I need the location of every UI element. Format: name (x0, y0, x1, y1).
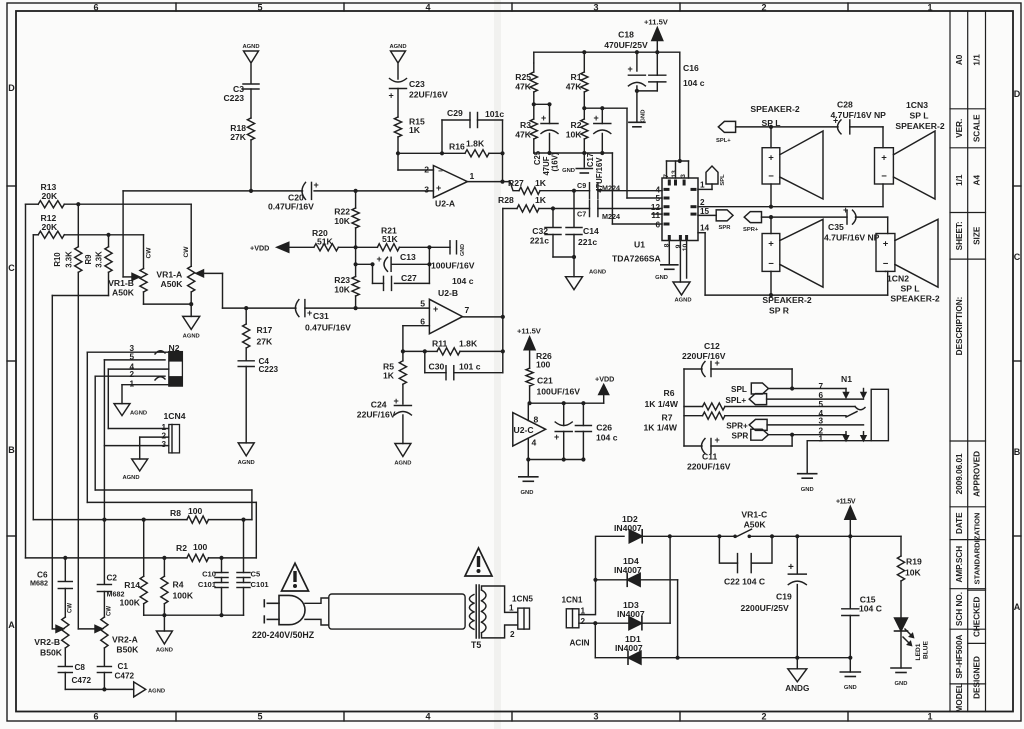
svg-text:1: 1 (470, 171, 475, 181)
wire VR2 bottom (65, 688, 133, 690)
diode 1D4 (627, 573, 640, 586)
svg-text:U1: U1 (634, 240, 645, 250)
wire U2C pin4 (527, 439, 529, 460)
svg-text:CHECKED: CHECKED (972, 596, 981, 637)
junction U1 bracket (678, 159, 682, 163)
svg-text:C31: C31 (313, 311, 329, 321)
resistor R2h (187, 554, 209, 561)
jack N1 contacts (845, 389, 847, 395)
svg-text:SPL+: SPL+ (725, 396, 746, 405)
capacitor C20 (311, 182, 313, 199)
junction C13 line (354, 262, 358, 266)
wire plus rail (670, 535, 735, 537)
svg-text:3: 3 (161, 440, 166, 449)
capacitor C13 (390, 257, 392, 271)
svg-text:100: 100 (188, 506, 203, 516)
svg-text:C21: C21 (537, 376, 553, 386)
svg-text:2009.06.01: 2009.06.01 (955, 453, 964, 494)
speaker 1CN2 (876, 234, 895, 272)
svg-text:ANDG: ANDG (785, 684, 809, 693)
potentiometer VR1-A wiper (201, 272, 223, 274)
pin 11 stub (652, 213, 662, 215)
diode 1D1 (628, 651, 641, 664)
svg-text:+: + (436, 183, 441, 193)
ground AGND R4 symbol (156, 631, 172, 644)
svg-text:+: + (541, 113, 546, 123)
potentiometer VR1-B (143, 235, 145, 269)
capacitor C8 (58, 666, 72, 668)
diode 1D3 (629, 617, 642, 630)
jack N1 (871, 389, 888, 440)
resistor R7 (684, 415, 703, 417)
svg-text:1K 1/4W: 1K 1/4W (644, 423, 678, 433)
svg-text:1: 1 (927, 3, 932, 13)
svg-text:20K: 20K (42, 191, 59, 201)
svg-text:1K: 1K (535, 195, 547, 205)
svg-text:AMP.SCH: AMP.SCH (955, 546, 964, 583)
potentiometer VR2-B (62, 617, 69, 648)
IC U1 TDA7266SA (662, 178, 698, 241)
svg-text:R27: R27 (508, 178, 524, 188)
wire R15 to opamp pin2 (397, 153, 399, 170)
flag SPL out (751, 383, 768, 394)
flag SPL plus (718, 121, 735, 132)
junction row1 (532, 102, 536, 106)
resistor R26 (526, 368, 533, 386)
svg-text:+: + (883, 239, 889, 250)
svg-text:1CN1: 1CN1 (562, 596, 583, 605)
junction R20 node (354, 245, 358, 249)
svg-text:SP-HF500A: SP-HF500A (955, 634, 964, 678)
capacitor C18 (636, 52, 638, 71)
wire VR1 bottoms (144, 303, 192, 305)
speaker SP R (762, 234, 780, 272)
svg-text:N1: N1 (841, 374, 852, 384)
svg-text:BLUE: BLUE (923, 640, 930, 659)
power +11.5V arrow 2 (524, 337, 535, 350)
svg-text:+: + (377, 254, 382, 264)
svg-text:11: 11 (651, 211, 660, 220)
capacitor C31 (304, 300, 306, 317)
resistor R23 (355, 264, 357, 276)
resistor R18 (247, 118, 254, 140)
svg-text:A4: A4 (972, 175, 981, 186)
ground AGND right VR2 (134, 682, 146, 697)
svg-text:GND: GND (562, 168, 575, 174)
junction SPL line (769, 125, 773, 129)
capacitor C25 (549, 104, 551, 123)
svg-text:4: 4 (425, 712, 430, 722)
svg-text:5: 5 (257, 712, 262, 722)
ground GND below C15 (849, 658, 851, 672)
wire R9 to VR2B wiper (52, 295, 108, 297)
junction row2 (547, 151, 551, 155)
capacitor C3 (243, 83, 259, 85)
ground AGND below 1CN4 (132, 459, 148, 471)
svg-text:C24: C24 (371, 400, 387, 410)
svg-text:+VDD: +VDD (595, 375, 614, 384)
svg-text:U2-A: U2-A (435, 199, 455, 209)
svg-text:C: C (1014, 252, 1021, 262)
svg-text:−: − (768, 171, 774, 182)
svg-text:+: + (768, 153, 774, 164)
junction R15 bottom (396, 151, 400, 155)
svg-text:AGND: AGND (148, 689, 165, 695)
svg-text:5: 5 (655, 194, 660, 203)
resistor R28 (503, 208, 517, 210)
svg-text:VR1-A: VR1-A (156, 270, 182, 280)
svg-text:C17: C17 (586, 153, 595, 167)
svg-text:A: A (1014, 602, 1021, 612)
svg-text:C10: C10 (202, 570, 216, 579)
svg-text:47K: 47K (515, 82, 532, 92)
wire R13 bus (25, 204, 27, 558)
svg-text:10K: 10K (905, 568, 922, 578)
svg-text:104 c: 104 c (452, 276, 474, 286)
wire R22 down (355, 247, 357, 264)
svg-text:C13: C13 (400, 252, 416, 262)
svg-text:SPR: SPR (719, 225, 732, 231)
svg-text:+11.5V: +11.5V (836, 499, 856, 506)
svg-text:C35: C35 (828, 222, 844, 232)
svg-text:R22: R22 (334, 207, 350, 217)
svg-text:TDA7266SA: TDA7266SA (612, 254, 661, 264)
power cable (329, 594, 465, 629)
svg-text:GND: GND (460, 244, 466, 256)
svg-text:4: 4 (425, 3, 430, 13)
resistor R21 (377, 244, 399, 251)
wire SPR minus (770, 271, 772, 295)
resistor R19 (900, 536, 902, 556)
wire R28 left (502, 209, 504, 317)
svg-text:1: 1 (927, 712, 932, 722)
junction R12 line (106, 233, 110, 237)
junction U2C bottom (526, 457, 530, 461)
svg-text:SP L: SP L (901, 284, 920, 294)
svg-text:C7: C7 (577, 210, 586, 219)
resistor R2 (583, 108, 585, 119)
capacitor C16 (656, 52, 658, 75)
wire SPR to spk (770, 217, 772, 233)
svg-text:−: − (768, 258, 774, 269)
svg-text:C30: C30 (429, 362, 445, 372)
ground GND below U2C (527, 460, 529, 477)
wire U1 pins 9 10 down (679, 241, 681, 283)
svg-text:IN4007: IN4007 (614, 523, 642, 533)
svg-text:C26: C26 (596, 423, 612, 433)
svg-text:C32: C32 (532, 226, 548, 236)
svg-text:D: D (8, 83, 15, 93)
op-amp U2-C (513, 413, 546, 446)
potentiometer VR2-A (101, 617, 108, 648)
svg-text:1CN2: 1CN2 (887, 274, 909, 284)
junction feedback out (500, 151, 504, 155)
capacitor C11 loop (684, 445, 702, 447)
capacitor C101a (221, 578, 223, 583)
junction VR1 bottom (189, 302, 193, 306)
ground GND below N1 (798, 473, 817, 475)
capacitor C12 (710, 362, 712, 377)
resistor R5 (402, 351, 404, 360)
svg-text:27K: 27K (230, 132, 247, 142)
wire feedback right (502, 120, 504, 182)
connector 1CN1 (566, 609, 579, 628)
svg-text:1K: 1K (383, 371, 395, 381)
junction C31 R23 (354, 306, 358, 310)
svg-text:SPEAKER-2: SPEAKER-2 (750, 104, 799, 114)
svg-text:U2-C: U2-C (514, 425, 534, 435)
svg-text:C1: C1 (118, 662, 129, 671)
resistor R6 (684, 406, 703, 408)
svg-text:C101: C101 (251, 580, 270, 589)
capacitor C17 (601, 108, 603, 123)
svg-text:C101: C101 (198, 580, 217, 589)
wire C12 loop (683, 369, 685, 446)
wire 1D4 (596, 579, 627, 581)
wire +11.5V to rail (656, 38, 658, 52)
svg-text:R7: R7 (662, 413, 673, 423)
potentiometer VR2-B wiper (52, 628, 57, 630)
svg-text:20K: 20K (42, 222, 59, 232)
diode 1D2 (629, 530, 642, 543)
svg-text:1.8K: 1.8K (466, 139, 485, 149)
svg-text:104 c: 104 c (596, 433, 618, 443)
svg-text:A50K: A50K (161, 279, 184, 289)
svg-text:M224: M224 (602, 184, 620, 193)
resistor R13 (26, 203, 39, 205)
wire N2 pin1 (122, 384, 169, 386)
svg-text:1K: 1K (535, 178, 547, 188)
svg-text:1CN4: 1CN4 (164, 411, 186, 421)
svg-text:+: + (433, 304, 438, 314)
wire bias row1 (534, 103, 550, 105)
svg-text:AGND: AGND (156, 648, 173, 654)
svg-text:1: 1 (818, 434, 823, 443)
svg-text:LED1: LED1 (915, 643, 922, 660)
ground AGND below N2 (114, 404, 130, 416)
svg-text:D: D (1014, 89, 1021, 99)
junction SPR line (769, 215, 773, 219)
svg-text:AGND: AGND (389, 44, 406, 50)
switch VR1-C (733, 535, 737, 539)
svg-text:C472: C472 (72, 676, 92, 685)
svg-text:GND: GND (521, 490, 534, 496)
svg-text:100K: 100K (173, 591, 194, 601)
wire R15 to feedback node (398, 152, 442, 154)
wire SPL minus (770, 184, 772, 207)
wire node B down (594, 623, 596, 658)
svg-text:−: − (438, 167, 443, 176)
resistor R4 (163, 558, 165, 576)
svg-text:SPL: SPL (720, 174, 726, 186)
svg-text:1: 1 (509, 604, 514, 613)
svg-text:SCH NO.: SCH NO. (955, 592, 964, 626)
junction feedback node (440, 151, 444, 155)
capacitor C14 (566, 227, 582, 229)
svg-text:1/1: 1/1 (972, 54, 981, 66)
wire 1CN4 pin3 (104, 445, 168, 447)
wire VR1B wiper riser (122, 191, 124, 277)
svg-text:AGND: AGND (238, 460, 255, 466)
svg-text:+: + (389, 91, 394, 101)
svg-text:C16: C16 (683, 63, 699, 73)
svg-text:2: 2 (510, 630, 515, 639)
wire C27 branch (372, 264, 374, 283)
svg-text:A50K: A50K (112, 288, 135, 298)
svg-text:1/1: 1/1 (955, 174, 964, 186)
ground GND below C18 (636, 91, 638, 122)
svg-text:C28: C28 (837, 100, 853, 110)
capacitor C19 (796, 536, 798, 573)
svg-text:AGND: AGND (242, 44, 259, 50)
junction bottom rail (676, 656, 680, 660)
flag SPL (698, 188, 712, 190)
svg-text:6: 6 (655, 220, 660, 229)
svg-text:SCALE: SCALE (972, 114, 981, 142)
svg-text:3: 3 (424, 185, 429, 195)
svg-text:IN4007: IN4007 (615, 643, 643, 653)
wire U2C pin8 (527, 403, 529, 420)
junction R18 bottom (249, 189, 253, 193)
svg-text:R4: R4 (173, 580, 184, 590)
svg-text:IN4007: IN4007 (617, 609, 645, 619)
svg-text:2: 2 (424, 165, 429, 175)
svg-text:B: B (1014, 447, 1021, 457)
svg-text:C19: C19 (776, 592, 792, 602)
svg-text:51K: 51K (317, 237, 334, 247)
svg-text:6: 6 (93, 3, 98, 13)
speaker 1CN3 (875, 148, 894, 184)
capacitor C35 (846, 210, 848, 224)
wire SPR line (762, 216, 848, 218)
junction R2 line (63, 556, 67, 560)
svg-text:2: 2 (700, 198, 705, 207)
wire bias row1b (584, 107, 627, 109)
svg-text:221c: 221c (578, 237, 597, 247)
wire U1 pin14 (698, 232, 705, 234)
capacitor C30 (445, 366, 447, 380)
svg-text:C11: C11 (702, 452, 718, 462)
svg-text:A50K: A50K (744, 520, 767, 530)
svg-text:+: + (881, 153, 887, 164)
wire 1CN4 pin1 (108, 428, 169, 430)
svg-text:47K: 47K (566, 82, 583, 92)
svg-text:4: 4 (532, 438, 537, 448)
junction SPL out (790, 386, 794, 390)
svg-text:10K: 10K (334, 285, 351, 295)
wire N1 pin1 gnd (807, 441, 871, 474)
ground ANDG (796, 658, 798, 669)
svg-text:SPEAKER-2: SPEAKER-2 (890, 294, 939, 304)
svg-text:C18: C18 (618, 30, 634, 40)
svg-text:220UF/16V: 220UF/16V (687, 462, 731, 472)
op-amp U2-A (433, 166, 467, 198)
svg-text:R2: R2 (571, 120, 582, 130)
capacitor C23 (390, 88, 407, 90)
resistor R25 (533, 63, 535, 72)
junction U2B out (501, 315, 505, 319)
svg-text:GND: GND (895, 681, 908, 687)
wire U2B out (463, 316, 503, 318)
svg-text:SPL+: SPL+ (716, 138, 731, 144)
svg-text:GND: GND (801, 487, 814, 493)
svg-text:2200UF/25V: 2200UF/25V (741, 603, 790, 613)
svg-text:1K: 1K (409, 125, 421, 135)
wire SPL to spk (770, 127, 772, 148)
capacitor C22 loop (719, 536, 737, 563)
svg-text:7: 7 (465, 305, 470, 315)
svg-text:R23: R23 (334, 275, 350, 285)
potentiometer VR2-A wiper (78, 628, 96, 630)
LED LED1 (895, 618, 908, 631)
junction C18 bottom (635, 89, 639, 93)
svg-text:T5: T5 (471, 640, 481, 650)
speaker SP L (762, 148, 780, 184)
svg-text:6: 6 (93, 712, 98, 722)
svg-text:C223: C223 (223, 93, 244, 103)
title block grid (950, 11, 986, 712)
svg-text:GND: GND (641, 110, 647, 123)
flag SPR (698, 214, 716, 216)
capacitor C24 (394, 405, 411, 407)
svg-text:1: 1 (700, 181, 705, 190)
wire SPL plus out (767, 398, 864, 400)
wire R8 line (33, 519, 187, 521)
svg-text:+: + (307, 308, 312, 318)
wire U2C node line (530, 402, 604, 404)
svg-text:C27: C27 (401, 273, 417, 283)
wire SPL out (768, 388, 846, 390)
wire R2 line (26, 557, 187, 559)
AC plug (279, 595, 305, 624)
wire N2 pin5 (104, 359, 165, 361)
svg-text:4.7UF/16V NP: 4.7UF/16V NP (831, 110, 887, 120)
svg-text:100: 100 (193, 542, 208, 552)
wire SPL line (736, 126, 838, 128)
svg-text:221c: 221c (530, 236, 549, 246)
svg-text:M682: M682 (30, 579, 48, 588)
svg-text:IN4007: IN4007 (614, 565, 642, 575)
flag SPR plus (744, 212, 761, 223)
capacitor C10 branch (221, 558, 223, 573)
junction R11 (401, 349, 405, 353)
svg-text:−: − (883, 258, 889, 269)
capacitor C6 (64, 558, 66, 581)
wire U2B pin6 (403, 325, 430, 327)
warning triangle 2 (465, 548, 492, 576)
svg-text:−: − (881, 171, 887, 182)
svg-text:R10: R10 (53, 252, 62, 267)
svg-text:+VDD: +VDD (250, 244, 269, 253)
svg-text:SIZE: SIZE (972, 226, 981, 245)
wire N2 pin2 (95, 375, 165, 377)
svg-text:SPR: SPR (732, 432, 749, 441)
svg-text:VR2-B: VR2-B (34, 637, 60, 647)
svg-text:AGND: AGND (674, 298, 691, 304)
potentiometer VR1-A (190, 204, 192, 266)
svg-text:C23: C23 (409, 79, 425, 89)
capacitor C9 (574, 190, 590, 192)
svg-text:C22 104 C: C22 104 C (724, 577, 765, 587)
junction 1D4 left (593, 578, 597, 582)
wire bottom rail (678, 657, 851, 659)
svg-text:2: 2 (161, 431, 166, 440)
power +11.5V arrow (652, 28, 663, 41)
svg-text:1CN5: 1CN5 (512, 595, 533, 604)
ground AGND below U1 (673, 282, 690, 295)
svg-text:R11: R11 (432, 339, 448, 349)
svg-text:101c: 101c (485, 109, 504, 119)
